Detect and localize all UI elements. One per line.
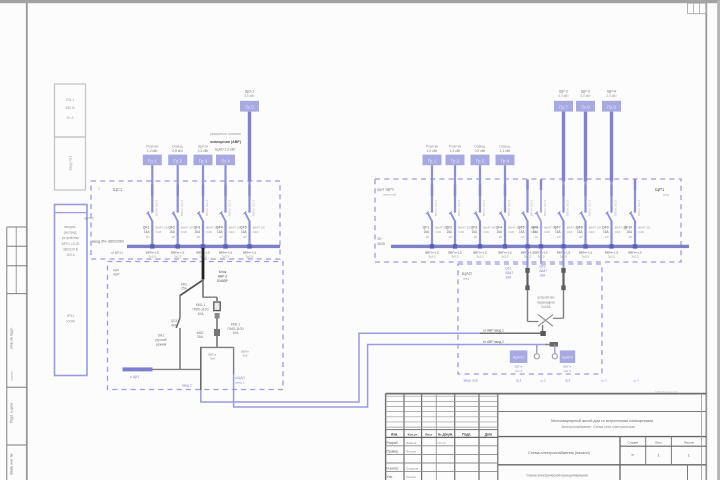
svg-text:ВВГнг 3х2,5: ВВГнг 3х2,5 (252, 199, 256, 216)
svg-text:IP31: IP31 (663, 193, 670, 197)
bus tap (503, 244, 507, 248)
panel box ShchS1 (dashed) (91, 181, 280, 259)
label box (143, 155, 162, 166)
svg-text:ЩР-4: ЩР-4 (607, 90, 616, 94)
svg-text:ЩАО 2,2 кВт: ЩАО 2,2 кВт (215, 147, 236, 151)
wire (224, 221, 226, 247)
svg-text:распред.: распред. (64, 231, 78, 235)
feeder branch QF2 (168, 145, 193, 259)
svg-text:16А: 16А (424, 230, 431, 234)
contactor KM1 (216, 297, 218, 301)
svg-text:ВВГнг 3х2,5: ВВГнг 3х2,5 (155, 199, 159, 216)
frame left vertical (26, 3, 28, 480)
feeder branch QF6 (532, 180, 557, 259)
svg-text:С16: С16 (483, 230, 489, 234)
svg-text:Схема электроснабжения (начало: Схема электроснабжения (начало) (528, 451, 590, 455)
outgoing box R (560, 350, 575, 363)
svg-text:ПМЛ-1100: ПМЛ-1100 (193, 307, 209, 311)
svg-text:2,2 кВт: 2,2 кВт (198, 149, 209, 153)
svg-text:гр.2: гр.2 (540, 379, 546, 383)
svg-text:щит ЩР1: щит ЩР1 (377, 187, 395, 192)
wire (431, 165, 433, 181)
feeder branch QF4 (496, 145, 521, 259)
label box (554, 101, 573, 112)
svg-text:1P: 1P (197, 235, 201, 239)
svg-text:10А: 10А (197, 312, 204, 316)
svg-text:ВВГнг 3х2,5: ВВГнг 3х2,5 (566, 199, 570, 216)
svg-text:перекидное: перекидное (537, 300, 555, 304)
svg-text:3х1,5: 3х1,5 (515, 369, 523, 373)
svg-text:ввод №1: ввод №1 (69, 156, 73, 171)
svg-text:4,0 кВт: 4,0 кВт (558, 94, 569, 98)
svg-text:Изм.: Изм. (391, 432, 398, 436)
svg-text:16А: 16А (506, 276, 513, 280)
bus tap (583, 244, 587, 248)
wire (202, 221, 204, 247)
feeder branch QF9 (602, 90, 627, 259)
fuse F1 (525, 268, 529, 273)
svg-text:Освещ.: Освещ. (474, 145, 486, 149)
wire AVR exit 1 (200, 390, 202, 403)
wire (542, 325, 544, 333)
AVR blade (180, 280, 203, 296)
outgoing blue stub (123, 367, 153, 371)
AVR input wire (202, 248, 205, 280)
svg-text:ручной: ручной (156, 338, 167, 342)
svg-text:QF9: QF9 (602, 225, 609, 229)
svg-text:ВВГнг 3х2,5: ВВГнг 3х2,5 (205, 199, 209, 216)
wire (610, 112, 613, 182)
breaker contact (523, 212, 528, 221)
wire to ShchAO lower (368, 344, 548, 346)
svg-text:16А: 16А (540, 274, 547, 278)
paper top edge (0, 0, 720, 3)
wire down to exit (233, 347, 235, 374)
wire (526, 180, 528, 182)
wire (562, 221, 564, 247)
svg-text:3х2,5: 3х2,5 (451, 254, 459, 258)
wire (216, 319, 218, 330)
svg-text:3х2,5: 3х2,5 (246, 254, 254, 258)
svg-text:16А: 16А (472, 230, 479, 234)
svg-text:380В: 380В (377, 242, 386, 246)
feeder branch QF8 (576, 90, 601, 259)
wire (151, 181, 153, 213)
wire (151, 221, 153, 247)
svg-text:подпись: подпись (10, 370, 14, 381)
svg-text:С16: С16 (156, 230, 162, 234)
svg-text:С16: С16 (181, 230, 187, 234)
svg-text:5х6: 5х6 (243, 354, 248, 358)
label box (168, 155, 187, 166)
svg-text:QF1: QF1 (506, 266, 512, 270)
title header row (391, 432, 492, 436)
svg-text:Гр.1: Гр.1 (148, 158, 157, 163)
svg-text:Блок: Блок (219, 270, 227, 274)
feeder branch QF3 (471, 145, 496, 259)
svg-text:1,0 кВт: 1,0 кВт (427, 149, 438, 153)
breaker contact (450, 212, 455, 221)
svg-text:Гр.3: Гр.3 (476, 158, 485, 163)
breaker contact (630, 212, 635, 221)
svg-text:ВА47-29: ВА47-29 (229, 225, 241, 229)
wire (224, 181, 226, 213)
svg-text:ВА47-29: ВА47-29 (181, 225, 193, 229)
cabinet VRU1 (55, 205, 88, 376)
svg-text:Гр.2: Гр.2 (451, 158, 460, 163)
svg-text:С16: С16 (229, 230, 235, 234)
ShchAO feed 2 stub (563, 248, 565, 268)
svg-text:1: 1 (688, 453, 690, 457)
svg-text:ВВГнг 3х2,5: ВВГнг 3х2,5 (180, 199, 184, 216)
wire (540, 221, 542, 247)
svg-text:0,8 кВт: 0,8 кВт (172, 149, 183, 153)
svg-text:ЩАО: ЩАО (462, 271, 473, 276)
wire (479, 165, 481, 181)
svg-text:1P: 1P (579, 235, 583, 239)
svg-text:Схема электрическая принципиал: Схема электрическая принципиальная (526, 474, 588, 478)
svg-text:С16: С16 (206, 230, 212, 234)
svg-text:ЩР-3: ЩР-3 (581, 90, 590, 94)
wire long horizontal feed 1 (201, 401, 359, 403)
breaker contact (559, 212, 564, 221)
svg-text:к ЩАО: к ЩАО (235, 376, 245, 380)
svg-text:0,9 кВт: 0,9 кВт (475, 149, 486, 153)
svg-text:16А: 16А (519, 230, 526, 234)
svg-text:QF3: QF3 (194, 225, 201, 229)
wire (202, 279, 204, 298)
breaker contact (536, 212, 541, 221)
svg-text:3х2,5: 3х2,5 (501, 254, 509, 258)
svg-text:1P: 1P (146, 235, 150, 239)
svg-text:16А: 16А (217, 230, 224, 234)
svg-text:QF2: QF2 (168, 225, 175, 229)
svg-text:2,5 кВт: 2,5 кВт (606, 94, 617, 98)
svg-text:QF5: QF5 (518, 225, 525, 229)
svg-text:1: 1 (98, 187, 100, 191)
svg-text:3,0 кВт: 3,0 кВт (580, 94, 591, 98)
feeder branch QF5 (518, 180, 543, 259)
title block (386, 394, 707, 480)
wire (248, 181, 250, 213)
svg-text:16А: 16А (241, 230, 248, 234)
svg-text:Иванов: Иванов (406, 441, 417, 445)
svg-text:освещения (АВР): освещения (АВР) (210, 140, 242, 144)
svg-text:Многоквартирный жилой дом со в: Многоквартирный жилой дом со встроенными… (551, 419, 653, 423)
svg-text:вводно-: вводно- (65, 225, 77, 229)
svg-text:ЩС1: ЩС1 (113, 187, 123, 192)
svg-text:1,2 кВт: 1,2 кВт (147, 149, 158, 153)
svg-text:УХЛ4: УХЛ4 (66, 320, 75, 324)
feeder branch QF3 (194, 145, 219, 259)
wire (584, 112, 587, 182)
breaker contact (245, 212, 250, 221)
wire (177, 165, 179, 181)
svg-text:КМ1.1: КМ1.1 (196, 303, 206, 307)
spare stub (540, 248, 542, 264)
changeover switch X (527, 290, 529, 322)
wire (153, 368, 201, 370)
wire (177, 181, 179, 213)
lamp circle L (534, 354, 539, 359)
wire (584, 221, 586, 247)
svg-text:ВВГнг 3х2,5: ВВГнг 3х2,5 (434, 199, 438, 216)
svg-text:Лист: Лист (655, 440, 662, 444)
svg-text:Гр.7: Гр.7 (559, 105, 568, 110)
wire (177, 221, 179, 247)
svg-text:QF1: QF1 (423, 225, 430, 229)
svg-text:Н.контр.: Н.контр. (387, 467, 400, 471)
svg-text:Сидоров: Сидоров (406, 467, 419, 471)
breaker contact (475, 212, 480, 221)
bus tap (525, 244, 529, 248)
svg-text:Листов: Листов (684, 440, 694, 444)
svg-text:ВРУ1-13-20: ВРУ1-13-20 (62, 242, 80, 246)
breaker contact (427, 212, 432, 221)
svg-text:1P: 1P (605, 235, 609, 239)
wire (634, 221, 636, 247)
breaker contact (581, 212, 586, 221)
wire (454, 165, 456, 181)
svg-text:ВА47-29: ВА47-29 (253, 225, 265, 229)
label box (496, 155, 515, 166)
svg-text:Розетки: Розетки (449, 145, 461, 149)
wire (634, 181, 636, 213)
wire (151, 165, 153, 181)
svg-text:QF3: QF3 (471, 225, 478, 229)
bus tap (478, 244, 482, 248)
svg-text:Провер.: Провер. (387, 449, 399, 453)
svg-text:Инв. № подл.: Инв. № подл. (10, 327, 14, 348)
wire (554, 345, 556, 354)
breaker contact (173, 212, 178, 221)
svg-text:1,2 кВт: 1,2 кВт (450, 149, 461, 153)
wire (203, 296, 217, 298)
svg-text:от АВР ввод 2: от АВР ввод 2 (483, 340, 504, 344)
feeder branch QF1 (143, 145, 168, 259)
svg-text:гр.3: гр.3 (601, 379, 607, 383)
svg-text:Розетки: Розетки (426, 145, 438, 149)
svg-text:16А: 16А (577, 230, 584, 234)
svg-text:Гр.4: Гр.4 (221, 158, 230, 163)
svg-text:БУАВР: БУАВР (217, 279, 228, 283)
svg-text:QS1: QS1 (171, 319, 178, 323)
svg-text:ввод 2: ввод 2 (182, 383, 192, 387)
svg-text:16А: 16А (169, 230, 176, 234)
bus tap (609, 244, 613, 248)
wire (431, 181, 433, 213)
svg-text:3х2,5: 3х2,5 (428, 254, 436, 258)
legend box lower (55, 137, 86, 190)
svg-text:ВВГнг 3х2,5: ВВГнг 3х2,5 (457, 199, 461, 216)
paper right edge (717, 0, 720, 480)
svg-text:25А: 25А (181, 287, 188, 291)
svg-text:QF2: QF2 (446, 225, 453, 229)
svg-text:1P: 1P (219, 235, 223, 239)
wire riser feed 1 (358, 333, 360, 403)
svg-text:Подп.: Подп. (462, 432, 471, 436)
svg-text:QF7: QF7 (554, 225, 561, 229)
svg-text:№ докум.: № докум. (438, 432, 453, 436)
legend box upper (55, 84, 86, 137)
bus tap (176, 244, 180, 248)
switch QS1 (176, 318, 180, 328)
svg-text:Щиток: Щиток (198, 145, 208, 149)
bus tap (201, 244, 205, 248)
svg-text:16А: 16А (497, 230, 504, 234)
svg-text:16А: 16А (195, 230, 202, 234)
wire riser feed 2 (367, 344, 369, 408)
feeder branch QF5 (240, 90, 265, 259)
svg-text:ввод 1: ввод 1 (235, 381, 244, 385)
svg-text:навесной: навесной (383, 193, 396, 197)
wire (540, 181, 542, 213)
svg-text:1P: 1P (243, 235, 247, 239)
svg-text:1P: 1P (557, 235, 561, 239)
feeder branch QF2 (446, 145, 471, 259)
wire (526, 181, 528, 213)
wire (540, 180, 542, 182)
svg-text:С16: С16 (458, 230, 464, 234)
svg-text:С16: С16 (544, 230, 550, 234)
wire (634, 180, 636, 182)
svg-text:QF4: QF4 (216, 225, 223, 229)
svg-text:С16: С16 (638, 230, 644, 234)
svg-text:1P: 1P (629, 235, 633, 239)
svg-text:С16: С16 (567, 230, 573, 234)
svg-text:ВВГнг 3х2,5: ВВГнг 3х2,5 (588, 199, 592, 216)
svg-text:16А: 16А (447, 230, 454, 234)
wire (562, 112, 565, 182)
svg-text:Петров: Петров (406, 449, 416, 453)
bus tap (247, 244, 251, 248)
breaker contact (607, 212, 612, 221)
svg-text:ВРУ1: ВРУ1 (85, 217, 95, 221)
svg-text:1P: 1P (426, 235, 430, 239)
svg-text:ВА47-29: ВА47-29 (483, 225, 495, 229)
svg-text:2х16А: 2х16А (541, 305, 551, 309)
svg-text:ЩАО2: ЩАО2 (562, 355, 573, 360)
svg-text:Гр.9: Гр.9 (607, 105, 616, 110)
svg-text:ПЭ-1: ПЭ-1 (66, 98, 74, 102)
label box (576, 101, 595, 112)
svg-text:Кол.уч: Кол.уч (408, 432, 418, 436)
svg-text:25 А: 25 А (67, 116, 75, 120)
svg-text:Разраб.: Разраб. (387, 441, 399, 445)
svg-text:380 В: 380 В (65, 106, 75, 110)
wire (479, 221, 481, 247)
left stamp column (7, 227, 27, 480)
svg-text:гр.4: гр.4 (633, 379, 639, 383)
svg-text:16А: 16А (627, 230, 634, 234)
svg-text:Гр.2: Гр.2 (173, 158, 182, 163)
svg-text:3х2,5: 3х2,5 (582, 254, 590, 258)
svg-text:ЩР1: ЩР1 (655, 187, 665, 192)
wire (504, 181, 506, 213)
svg-text:QF6: QF6 (532, 225, 539, 229)
svg-text:КМ2.1: КМ2.1 (231, 322, 241, 326)
wire (224, 165, 226, 181)
wire (200, 346, 234, 348)
feed-in lower (grey) (545, 344, 558, 346)
feeder branch QF10 (624, 180, 651, 259)
svg-text:ВА47: ВА47 (540, 269, 548, 273)
label box (471, 155, 490, 166)
label box (423, 155, 442, 166)
svg-text:ПМЛ-1100: ПМЛ-1100 (228, 327, 244, 331)
label box (446, 155, 465, 166)
svg-text:Гр.1: Гр.1 (428, 158, 437, 163)
bus tap (453, 244, 457, 248)
svg-text:от АВР ввод 1: от АВР ввод 1 (483, 329, 504, 333)
svg-text:ввод 3N~380/220В: ввод 3N~380/220В (92, 240, 124, 244)
wire (248, 221, 250, 247)
wire (216, 336, 218, 347)
breaker contact (500, 212, 505, 221)
svg-text:гр.2: гр.2 (565, 379, 571, 383)
svg-text:Взам. инв. №: Взам. инв. № (10, 453, 14, 474)
wire (504, 221, 506, 247)
svg-text:Дата: Дата (485, 432, 493, 436)
wire (431, 221, 433, 247)
svg-text:Розетки: Розетки (146, 145, 158, 149)
svg-text:5х6: 5х6 (210, 357, 215, 361)
svg-text:ВВГнг 3х2,5: ВВГнг 3х2,5 (614, 199, 618, 216)
svg-text:устройство: устройство (538, 296, 555, 300)
svg-text:25А: 25А (197, 335, 204, 339)
top-right format mini table (688, 3, 707, 14)
svg-text:10А: 10А (232, 331, 239, 335)
frame right vertical (705, 3, 707, 480)
svg-text:380/220 В: 380/220 В (63, 247, 79, 251)
svg-text:С16: С16 (615, 230, 621, 234)
feed-in upper (grey) (480, 332, 543, 334)
svg-text:Освещ.: Освещ. (172, 145, 184, 149)
feeder branch QF1 (423, 145, 448, 259)
outgoing box L (510, 350, 528, 363)
wire (454, 181, 456, 213)
svg-text:QF10: QF10 (624, 225, 633, 229)
panel box ShchR1 (dashed) (375, 179, 681, 262)
svg-text:Лист: Лист (425, 432, 433, 436)
svg-text:ВВГнг 3х2,5: ВВГнг 3х2,5 (543, 199, 547, 216)
svg-text:ВВГнг 3х2,5: ВВГнг 3х2,5 (530, 199, 534, 216)
svg-text:1P: 1P (449, 235, 453, 239)
svg-text:Гр.8: Гр.8 (581, 105, 590, 110)
svg-text:С16: С16 (253, 230, 259, 234)
fuse F2 (561, 268, 565, 273)
panel box AVR (dashed) (108, 262, 284, 390)
svg-text:ВВГнг 3х2,5: ВВГнг 3х2,5 (482, 199, 486, 216)
svg-text:3х2,5: 3х2,5 (149, 254, 157, 258)
wire (610, 181, 612, 213)
feeder branch QF7 (554, 90, 579, 259)
label box (602, 101, 621, 112)
svg-text:3,5 кВт: 3,5 кВт (244, 94, 255, 98)
svg-text:ВА47-29: ВА47-29 (458, 225, 470, 229)
bus ShchR1 (391, 245, 689, 248)
bus ShchS1 (127, 245, 280, 248)
svg-text:Стадия: Стадия (628, 440, 639, 444)
svg-text:АВР-2: АВР-2 (218, 275, 228, 279)
svg-text:QF1: QF1 (143, 225, 150, 229)
bus tap (223, 244, 227, 248)
svg-text:16А: 16А (603, 230, 610, 234)
svg-text:гр.1: гр.1 (516, 379, 522, 383)
wire (562, 181, 564, 213)
svg-text:QF4: QF4 (496, 225, 503, 229)
svg-text:ВА47: ВА47 (506, 271, 514, 275)
